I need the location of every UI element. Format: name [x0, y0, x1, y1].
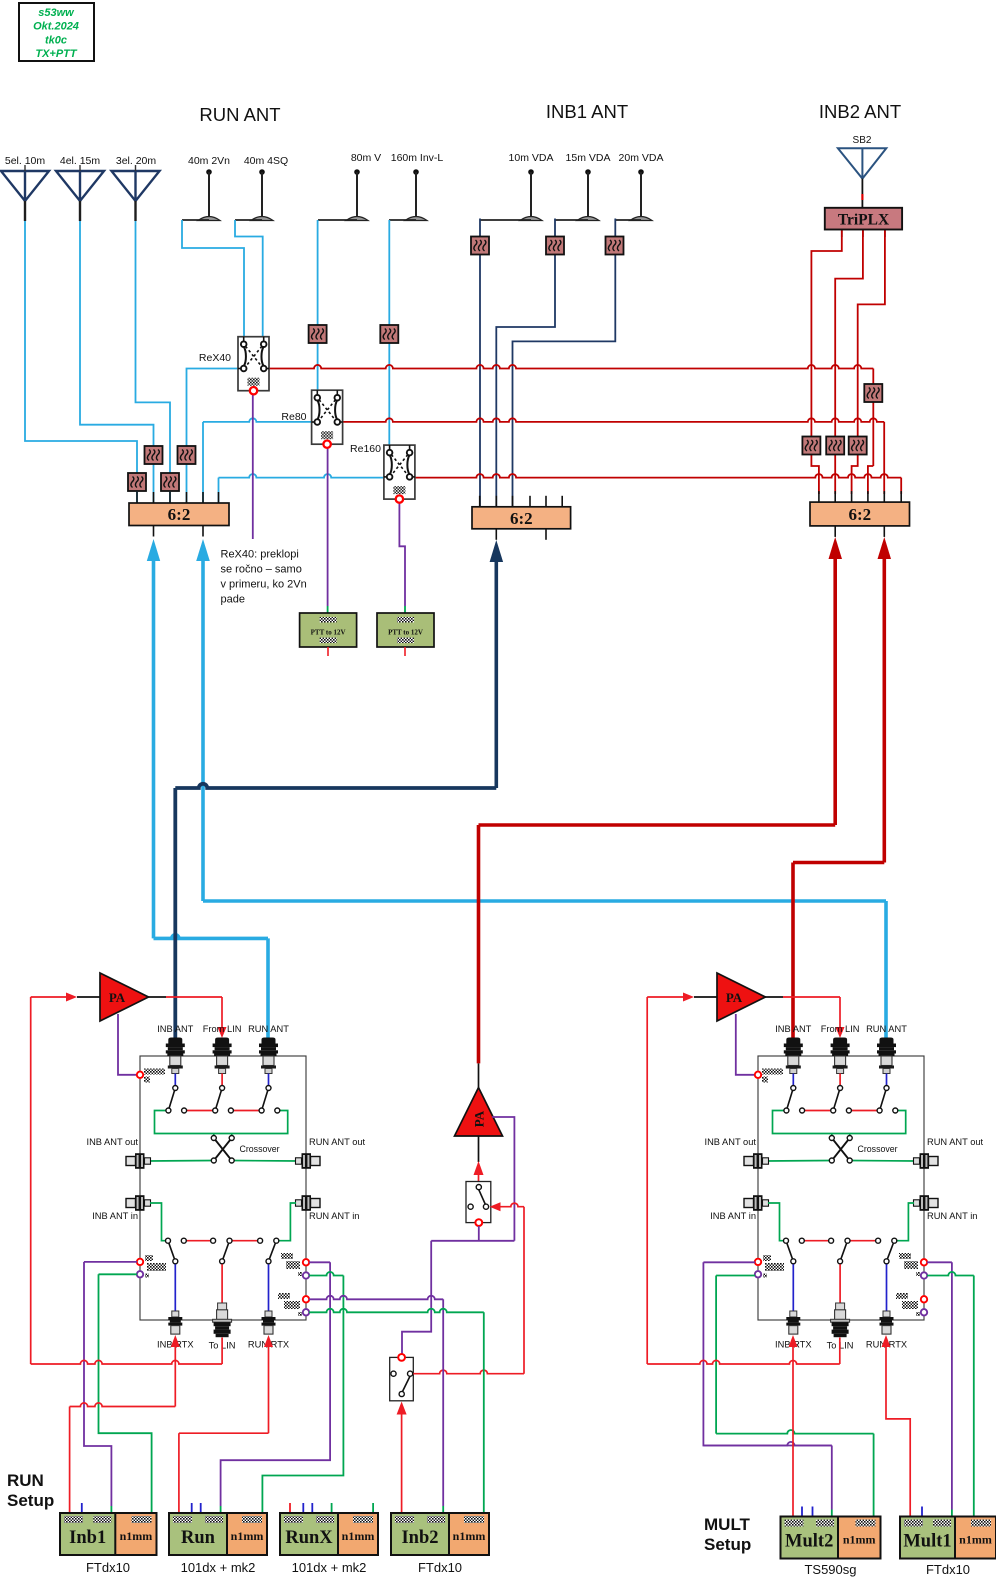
svg-text:FTdx10: FTdx10: [418, 1560, 462, 1575]
svg-text:TX+PTT: TX+PTT: [35, 48, 78, 60]
svg-text:RunX: RunX: [285, 1528, 333, 1548]
svg-text:ReX40: preklopi: ReX40: preklopi: [221, 549, 299, 561]
svg-text:160m Inv-L: 160m Inv-L: [391, 152, 444, 164]
svg-text:SB2: SB2: [853, 135, 872, 146]
svg-text:80m V: 80m V: [351, 152, 381, 164]
svg-text:15m VDA: 15m VDA: [566, 152, 611, 164]
svg-text:n1mm: n1mm: [120, 1529, 153, 1543]
svg-text:v primeru, ko 2Vn: v primeru, ko 2Vn: [221, 579, 307, 591]
svg-text:10m VDA: 10m VDA: [509, 152, 554, 164]
svg-text:RUN ANT: RUN ANT: [199, 104, 280, 125]
svg-text:RUN: RUN: [7, 1471, 44, 1490]
svg-text:Okt.2024: Okt.2024: [33, 21, 79, 33]
svg-text:Inb1: Inb1: [69, 1528, 106, 1548]
svg-text:PA: PA: [472, 1110, 487, 1127]
svg-text:Crossover: Crossover: [858, 1144, 898, 1154]
svg-text:PA: PA: [109, 990, 126, 1005]
svg-text:101dx + mk2: 101dx + mk2: [181, 1560, 256, 1575]
svg-text:MULT: MULT: [704, 1515, 751, 1534]
svg-text:TS590sg: TS590sg: [804, 1562, 856, 1577]
svg-text:n1mm: n1mm: [342, 1529, 375, 1543]
svg-text:Re80: Re80: [281, 411, 306, 423]
svg-text:Mult1: Mult1: [903, 1532, 951, 1552]
svg-text:6:2: 6:2: [168, 505, 191, 524]
svg-text:n1mm: n1mm: [231, 1529, 264, 1543]
svg-text:Inb2: Inb2: [401, 1528, 438, 1548]
svg-text:INB ANT in: INB ANT in: [710, 1211, 756, 1221]
svg-text:From LIN: From LIN: [203, 1024, 242, 1034]
svg-text:Setup: Setup: [7, 1491, 54, 1510]
svg-text:s53ww: s53ww: [38, 7, 75, 19]
svg-text:TriPLX: TriPLX: [838, 212, 890, 229]
svg-text:RUN ANT out: RUN ANT out: [309, 1137, 366, 1147]
svg-text:PTT to 12V: PTT to 12V: [388, 629, 423, 637]
svg-text:PA: PA: [726, 990, 743, 1005]
svg-text:n1mm: n1mm: [843, 1533, 876, 1547]
svg-text:FTdx10: FTdx10: [86, 1560, 130, 1575]
svg-text:Re160: Re160: [350, 443, 381, 455]
svg-text:Run: Run: [181, 1528, 216, 1548]
svg-text:INB ANT out: INB ANT out: [86, 1137, 138, 1147]
svg-text:RUN ANT in: RUN ANT in: [927, 1211, 977, 1221]
svg-text:6:2: 6:2: [848, 505, 871, 524]
svg-text:6:2: 6:2: [510, 509, 533, 528]
svg-text:INB ANT: INB ANT: [775, 1024, 811, 1034]
svg-text:INB2 ANT: INB2 ANT: [819, 101, 901, 122]
svg-text:n1mm: n1mm: [453, 1529, 486, 1543]
svg-text:tk0c: tk0c: [45, 34, 67, 46]
svg-text:INB ANT: INB ANT: [157, 1024, 193, 1034]
svg-text:FTdx10: FTdx10: [926, 1562, 970, 1577]
svg-text:RUN ANT in: RUN ANT in: [309, 1211, 359, 1221]
svg-text:RUN ANT: RUN ANT: [866, 1024, 907, 1034]
svg-text:se ročno – samo: se ročno – samo: [221, 564, 302, 576]
svg-text:ReX40: ReX40: [199, 352, 231, 364]
svg-text:n1mm: n1mm: [959, 1533, 992, 1547]
svg-text:Crossover: Crossover: [240, 1144, 280, 1154]
svg-text:Mult2: Mult2: [785, 1532, 833, 1552]
svg-text:From LIN: From LIN: [821, 1024, 860, 1034]
svg-text:INB ANT in: INB ANT in: [92, 1211, 138, 1221]
svg-text:20m VDA: 20m VDA: [619, 152, 664, 164]
svg-text:40m 4SQ: 40m 4SQ: [244, 155, 288, 167]
svg-text:PTT to 12V: PTT to 12V: [311, 629, 346, 637]
svg-text:pade: pade: [221, 594, 245, 606]
svg-text:INB1 ANT: INB1 ANT: [546, 101, 628, 122]
svg-text:40m 2Vn: 40m 2Vn: [188, 155, 230, 167]
svg-text:RUN ANT out: RUN ANT out: [927, 1137, 984, 1147]
svg-text:101dx + mk2: 101dx + mk2: [292, 1560, 367, 1575]
svg-text:RUN ANT: RUN ANT: [248, 1024, 289, 1034]
svg-text:Setup: Setup: [704, 1535, 751, 1554]
svg-text:INB ANT out: INB ANT out: [704, 1137, 756, 1147]
